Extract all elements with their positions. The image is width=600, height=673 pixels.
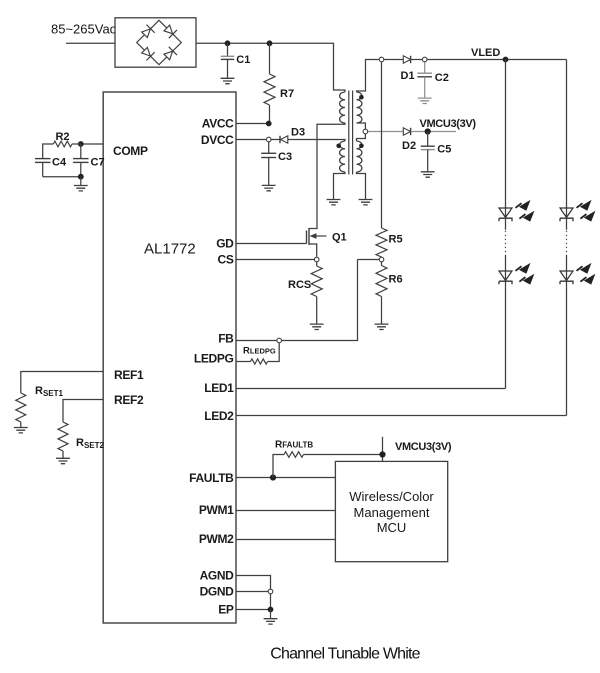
svg-text:FAULTB: FAULTB (189, 471, 234, 485)
svg-text:C4: C4 (52, 157, 67, 169)
wire: bridge output top rail to transformer primary (196, 43, 345, 92)
wire: CS pin to node (236, 259, 314, 261)
wire: AVCC pin to R7 bottom (236, 123, 269, 125)
capacitor C4 (35, 158, 51, 160)
svg-text:Wireless/Color: Wireless/Color (349, 489, 434, 504)
bridge diode (left-to-bottom edge) (140, 46, 154, 60)
wire: DGND node down to EP (270, 594, 272, 610)
LED (string1 top) (499, 208, 512, 217)
wire: LEDPG pin (236, 361, 251, 363)
diode D3 (281, 136, 288, 143)
svg-text:C7: C7 (91, 157, 105, 169)
svg-text:AVCC: AVCC (202, 117, 234, 131)
wire: REF1 pin to RSET1 (21, 372, 103, 394)
bridge diode (top-to-right edge) (163, 24, 177, 38)
wire: PWM2 pin to MCU (236, 539, 335, 541)
svg-text:VMCU3(3V): VMCU3(3V) (420, 118, 477, 130)
wire: FAULTB node up to RFAULTB (273, 455, 284, 478)
svg-text:R7: R7 (280, 88, 294, 100)
LED (string1 bottom) (499, 271, 512, 280)
svg-text:D2: D2 (402, 140, 416, 152)
svg-text:RFAULTB: RFAULTB (275, 439, 313, 450)
dotted continuation (string1) (505, 231, 507, 254)
controller IC U1 AL1772 body (103, 92, 236, 623)
svg-text:CS: CS (218, 253, 234, 267)
svg-text:AGND: AGND (200, 569, 235, 583)
svg-text:D3: D3 (291, 127, 305, 139)
ground (RCS) (310, 324, 324, 329)
wire: VMCU node down to bottom-right winding (357, 134, 366, 141)
svg-text:RSET1: RSET1 (35, 385, 64, 398)
wire: LED1 pin to string1 (236, 388, 506, 390)
svg-text:C2: C2 (435, 72, 449, 84)
transistor Q1 (N-MOSFET) (306, 231, 308, 244)
node: R7 top junction (267, 40, 273, 46)
svg-text:PWM1: PWM1 (199, 503, 234, 517)
bridge diode (bottom-to-right edge) (163, 47, 177, 61)
resistor RCS (316, 262, 318, 266)
diode D1 (403, 56, 410, 63)
phase dot (bottom-right winding) (359, 144, 364, 149)
phase dot (top-right winding) (359, 95, 364, 100)
wire: EP pin (236, 609, 271, 611)
svg-text:LED1: LED1 (204, 381, 234, 395)
wire: DVCC pin (236, 139, 266, 141)
node: EP ground junction (268, 607, 274, 613)
capacitor C2 (424, 62, 426, 73)
node: D1 anode junction (open) (379, 57, 384, 62)
wire: COMP pin to node (81, 143, 103, 145)
node: COMP RC junction (78, 141, 84, 147)
wire: VMCU3 stub into MCU (382, 437, 384, 462)
ground (C2) (418, 98, 432, 103)
node: transformer VMCU junction (open) (363, 129, 368, 134)
svg-text:D1: D1 (401, 70, 415, 82)
wire: D1 to VLED rail (411, 59, 422, 61)
resistor RLEDPG (251, 359, 268, 364)
svg-text:REF1: REF1 (114, 368, 144, 382)
svg-text:Management: Management (354, 505, 430, 520)
svg-text:MCU: MCU (377, 520, 407, 535)
wire: GD pin to Q1 gate (236, 243, 307, 245)
wire: D3 to aux winding (288, 140, 345, 142)
svg-text:R2: R2 (55, 131, 69, 143)
wire: R2 left to C4 (43, 144, 54, 159)
svg-text:DVCC: DVCC (201, 133, 234, 147)
phase dot (aux winding) (336, 144, 341, 149)
resistor R2 (72, 143, 81, 145)
svg-text:EP: EP (218, 602, 234, 616)
transformer T1 aux winding (bottom-left, DVCC) (340, 141, 345, 172)
capacitor C7 (80, 144, 82, 159)
svg-text:R6: R6 (389, 274, 403, 286)
wire: DGND pin (236, 591, 268, 593)
ground (RSET1) (14, 428, 28, 433)
node: DGND junction (open) (268, 589, 273, 594)
svg-text:AL1772: AL1772 (144, 241, 196, 258)
node: CS junction (open) (314, 257, 319, 262)
LED (string2 top) (560, 208, 573, 217)
transformer T1 core (349, 91, 353, 175)
ground (COMP network) (74, 186, 88, 191)
svg-text:RLEDPG: RLEDPG (243, 346, 276, 357)
node: VLED string1 junction (503, 57, 509, 63)
wire: RFAULTB to VMCU3 stub (304, 454, 383, 456)
wire: VLED to LED string1 (505, 60, 507, 230)
wire: FB node to R5/R6 node (282, 260, 358, 341)
svg-text:C3: C3 (278, 151, 292, 163)
wire: FB pin to node (236, 340, 277, 342)
svg-text:LED2: LED2 (204, 409, 234, 423)
wire: VLED D1-anode node down to R5 (381, 62, 383, 228)
wire: AGND pin (236, 576, 271, 590)
capacitor C5 (427, 132, 429, 147)
ground (aux winding) (327, 200, 341, 205)
svg-text:85~265Vac: 85~265Vac (51, 22, 117, 37)
dotted continuation (string2) (566, 231, 568, 254)
svg-text:C5: C5 (437, 143, 451, 155)
wire: AC input to bridge (66, 42, 115, 44)
svg-text:LEDPG: LEDPG (194, 352, 234, 366)
svg-text:GD: GD (216, 237, 234, 251)
transformer T1 primary winding (top-left) (340, 92, 345, 123)
resistor R6 (381, 262, 383, 266)
svg-text:R5: R5 (389, 234, 403, 246)
MCU block U2 (335, 461, 447, 561)
wire: R5/R6 node to FB riser (358, 259, 380, 261)
wire: VLED rail (427, 59, 567, 61)
ground (R6) (375, 324, 389, 329)
node: C2 junction (open) (422, 57, 427, 62)
bridge diode (left-to-top edge) (140, 25, 154, 39)
wire: top-right winding bottom to VMCU node (357, 123, 366, 129)
svg-text:PWM2: PWM2 (199, 532, 234, 546)
svg-text:RCS: RCS (288, 279, 311, 291)
node: COMP ground junction (78, 174, 84, 180)
wire: aux winding bottom to ground (334, 172, 346, 199)
wire: D2 to VMCU3 stub (gray) (411, 131, 456, 133)
resistor R7 (269, 43, 271, 74)
svg-text:REF2: REF2 (114, 393, 144, 407)
resistor R5 (376, 228, 387, 257)
ground (C1) (221, 78, 235, 83)
node: FAULTB junction (270, 474, 276, 480)
wire: RLEDPG to FB node (268, 343, 280, 362)
wire: DVCC node to D3 (271, 139, 280, 141)
wire: primary bottom to Q1 drain (309, 123, 345, 229)
svg-text:VLED: VLED (471, 47, 500, 59)
wire: FAULTB pin to MCU (236, 477, 335, 479)
svg-text:Channel Tunable White: Channel Tunable White (270, 646, 420, 663)
node: C5 junction (425, 128, 431, 134)
svg-text:RSET2: RSET2 (76, 437, 105, 450)
node: RFAULTB/VMCU junction (379, 451, 385, 457)
wire: bottom-right winding bottom to ground (357, 172, 366, 199)
ground (C3) (262, 185, 276, 190)
bridge rectifier diamond (137, 20, 182, 64)
transformer T1 secondary winding (bottom-right, VMCU) (357, 141, 362, 172)
svg-text:DGND: DGND (200, 585, 235, 599)
ground (bottom-right winding) (359, 200, 373, 205)
wire: VMCU winding node to D2 (gray) (368, 131, 404, 133)
ground (C5) (421, 172, 435, 177)
capacitor C3 (268, 142, 270, 154)
wire: VLED to LED string2 (566, 60, 568, 230)
node: DVCC junction (open) (266, 137, 271, 142)
ground (EP/AGND/DGND) (264, 619, 278, 624)
node: FB junction (open) (277, 338, 282, 343)
svg-text:VMCU3(3V): VMCU3(3V) (395, 441, 452, 453)
wire: PWM1 pin to MCU (236, 510, 335, 512)
LED (string2 bottom) (560, 271, 573, 280)
node: C1 junction (225, 40, 231, 46)
diode D2 (403, 128, 410, 135)
svg-text:C1: C1 (236, 54, 250, 66)
wire: to D1 (384, 59, 404, 61)
wire: REF2 pin to RSET2 (63, 400, 103, 423)
wire: C4/C7 bottom join (43, 176, 81, 178)
resistor RFAULTB (284, 452, 304, 458)
svg-text:FB: FB (218, 332, 234, 346)
resistor RSET1 (16, 393, 26, 422)
wire: LED2 pin to string2 (236, 415, 567, 417)
node: AVCC junction (266, 121, 272, 127)
svg-text:Q1: Q1 (332, 232, 347, 244)
ground (RSET2) (56, 458, 70, 463)
capacitor C1 (227, 43, 229, 56)
transformer T1 secondary winding (top-right, VLED) (357, 92, 362, 123)
resistor RSET2 (58, 422, 68, 451)
node: R5/R6 junction (open) (379, 257, 384, 262)
svg-text:COMP: COMP (113, 144, 148, 158)
wire: top-right winding top to D1 rail (357, 60, 379, 93)
bridge rectifier BR1 box (115, 18, 196, 67)
